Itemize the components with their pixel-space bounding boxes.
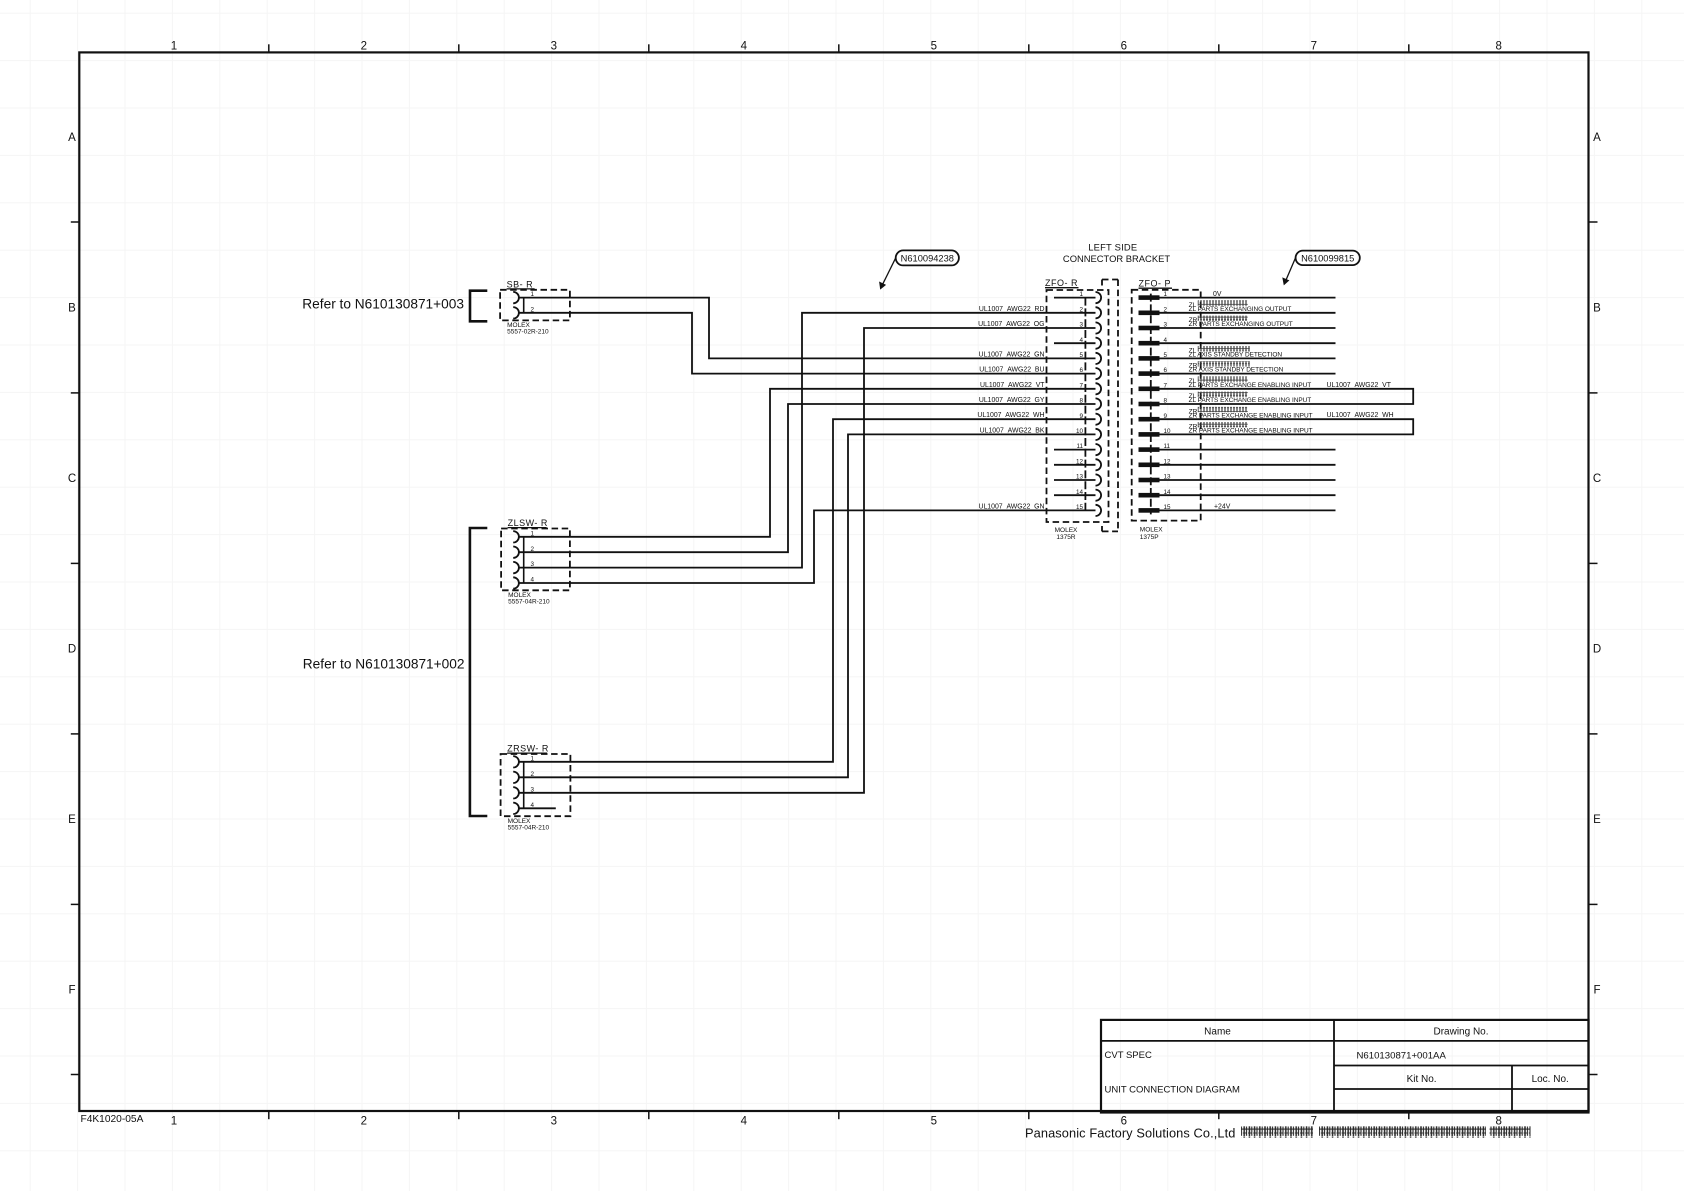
signal label pin 8: ZL PARTS EXCHANGE ENABLING INPUT xyxy=(1189,392,1312,405)
svg-text:ZRSW- R: ZRSW- R xyxy=(507,744,549,754)
svg-text:ZL PARTS EXCHANGE ENABLING INP: ZL PARTS EXCHANGE ENABLING INPUT xyxy=(1189,382,1312,389)
pin 8 xyxy=(1096,398,1102,409)
wire stub pin 1 xyxy=(1054,297,1096,299)
wire SB-R pin1 to ZFO-R pin5 xyxy=(519,298,1096,359)
svg-text:0V: 0V xyxy=(1213,291,1222,298)
svg-text:6: 6 xyxy=(1121,41,1127,53)
pin 12 xyxy=(1096,459,1102,470)
svg-text:9: 9 xyxy=(1079,413,1083,420)
svg-text:ZFO- R: ZFO- R xyxy=(1045,278,1078,288)
svg-text:5: 5 xyxy=(931,41,937,53)
svg-text:ZL AXIS STANDBY DETECTION: ZL AXIS STANDBY DETECTION xyxy=(1189,352,1283,359)
pin 15 xyxy=(1096,505,1102,516)
svg-text:E: E xyxy=(68,814,76,826)
svg-text:C: C xyxy=(1593,473,1601,485)
svg-text:C: C xyxy=(68,473,76,485)
svg-text:UL1007 AWG22 WH: UL1007 AWG22 WH xyxy=(1327,412,1394,419)
pin 3 xyxy=(513,787,519,798)
svg-text:4: 4 xyxy=(741,41,748,53)
wire stub pin 11 xyxy=(1054,449,1096,451)
svg-text:UL1007 AWG22 VT: UL1007 AWG22 VT xyxy=(1327,382,1392,389)
pin 3 xyxy=(1139,326,1160,331)
wire loop ZFO-P pin7 to pin8 xyxy=(1160,389,1414,404)
svg-text:5557-04R-210: 5557-04R-210 xyxy=(508,599,550,606)
signal label pin 7: ZL PARTS EXCHANGE ENABLING INPUT xyxy=(1189,376,1312,389)
wire labels UL1007 xyxy=(977,306,1045,511)
pin 1 xyxy=(1139,295,1160,300)
pin 4 xyxy=(513,803,519,814)
svg-text:MOLEX: MOLEX xyxy=(1055,527,1078,534)
svg-text:F: F xyxy=(68,985,75,997)
svg-text:ZR PARTS EXCHANGING OUTPUT: ZR PARTS EXCHANGING OUTPUT xyxy=(1189,321,1293,328)
wire stub pin 14 xyxy=(1054,494,1096,496)
svg-text:7: 7 xyxy=(1079,382,1083,389)
pin 3 xyxy=(513,562,519,573)
svg-text:N610094238: N610094238 xyxy=(901,253,954,263)
wire ZRSW-R pin3 to ZFO-R pin3 xyxy=(519,328,1096,793)
svg-text:SB- R: SB- R xyxy=(507,279,534,289)
pin 2 xyxy=(1139,311,1160,316)
connector ZLSW-R xyxy=(501,518,570,606)
svg-text:8: 8 xyxy=(1495,41,1501,53)
svg-text:UL1007 AWG22 BK: UL1007 AWG22 BK xyxy=(980,427,1045,434)
signal label pin 2: ZL PARTS EXCHANGING OUTPUT xyxy=(1189,300,1292,313)
svg-text:Drawing No.: Drawing No. xyxy=(1433,1027,1488,1038)
svg-text:1: 1 xyxy=(171,1116,177,1128)
svg-text:F4K1020-05A: F4K1020-05A xyxy=(81,1114,144,1125)
svg-text:2: 2 xyxy=(361,41,367,53)
svg-text:ZFO- P: ZFO- P xyxy=(1139,279,1172,289)
svg-text:N610099815: N610099815 xyxy=(1301,253,1354,263)
svg-text:5557-02R-210: 5557-02R-210 xyxy=(507,329,549,336)
svg-text:1375R: 1375R xyxy=(1056,534,1075,541)
pin 10 xyxy=(1096,429,1102,440)
wire ZFO-P pin 3 xyxy=(1160,327,1336,329)
callout N610099815 xyxy=(1282,251,1359,286)
svg-text:Refer to N610130871+003: Refer to N610130871+003 xyxy=(302,297,464,312)
wire ZRSW-R pin4 stub xyxy=(519,807,556,809)
svg-text:7: 7 xyxy=(1311,1116,1317,1128)
svg-text:1: 1 xyxy=(171,41,177,53)
bracket for ZLSW-R and ZRSW-R xyxy=(470,528,487,816)
svg-text:UL1007 AWG22 GN: UL1007 AWG22 GN xyxy=(979,503,1045,510)
svg-text:Kit No.: Kit No. xyxy=(1407,1074,1437,1085)
wire ZFO-P pin 15 xyxy=(1160,509,1336,511)
wire ZFO-P pin 1 xyxy=(1160,297,1336,299)
svg-text:2: 2 xyxy=(1079,306,1083,313)
pin 2 xyxy=(1096,307,1102,318)
connector ZFO-R xyxy=(1045,278,1109,541)
wire ZFO-P pin 12 xyxy=(1160,464,1336,466)
svg-text:LEFT SIDE: LEFT SIDE xyxy=(1088,242,1137,253)
pin 6 xyxy=(1139,371,1160,376)
svg-text:UNIT CONNECTION DIAGRAM: UNIT CONNECTION DIAGRAM xyxy=(1105,1085,1241,1096)
pin 7 xyxy=(1139,387,1160,392)
pin 13 xyxy=(1096,474,1102,485)
pin 9 xyxy=(1096,414,1102,425)
wire ZFO-P pin 4 xyxy=(1160,342,1336,344)
svg-text:UL1007 AWG22 OG: UL1007 AWG22 OG xyxy=(978,321,1044,328)
pin 6 xyxy=(1096,368,1102,379)
pin 14 xyxy=(1096,490,1102,501)
signal label pin 9: ZR PARTS EXCHANGE ENABLING INPUT xyxy=(1189,407,1313,420)
pin 2 xyxy=(513,547,519,558)
svg-text:3: 3 xyxy=(551,41,557,53)
pin 1 xyxy=(513,292,519,303)
svg-text:8: 8 xyxy=(1495,1116,1501,1128)
svg-text:Refer to N610130871+002: Refer to N610130871+002 xyxy=(303,657,465,672)
pin 4 xyxy=(1096,338,1102,349)
svg-text:ZR PARTS EXCHANGE ENABLING INP: ZR PARTS EXCHANGE ENABLING INPUT xyxy=(1189,428,1313,435)
pin 1 xyxy=(1096,292,1102,303)
svg-text:6: 6 xyxy=(1079,367,1083,374)
pin 3 xyxy=(1096,322,1102,333)
wire ZFO-P pin 2 xyxy=(1160,312,1336,314)
wire ZFO-P pin 14 xyxy=(1160,494,1336,496)
svg-text:UL1007 AWG22 BU: UL1007 AWG22 BU xyxy=(979,367,1044,374)
pin 5 xyxy=(1139,356,1160,361)
svg-text:5: 5 xyxy=(931,1116,937,1128)
svg-text:UL1007 AWG22 GY: UL1007 AWG22 GY xyxy=(979,397,1045,404)
pin 1 xyxy=(513,531,519,542)
wire ZLSW-R pin2 to ZFO-R pin8 xyxy=(519,404,1096,552)
svg-text:5: 5 xyxy=(1079,352,1083,359)
pin 1 xyxy=(513,756,519,767)
pin 11 xyxy=(1139,447,1160,452)
svg-text:UL1007 AWG22 GN: UL1007 AWG22 GN xyxy=(979,351,1045,358)
svg-text:2: 2 xyxy=(361,1116,367,1128)
svg-text:Loc. No.: Loc. No. xyxy=(1532,1074,1569,1085)
svg-text:D: D xyxy=(1593,644,1601,656)
bracket for SB-R xyxy=(470,291,487,322)
svg-text:MOLEX: MOLEX xyxy=(1140,526,1163,533)
pin 9 xyxy=(1139,417,1160,422)
svg-text:UL1007 AWG22 RD: UL1007 AWG22 RD xyxy=(979,306,1045,313)
svg-text:ZLSW- R: ZLSW- R xyxy=(508,518,548,528)
svg-text:A: A xyxy=(68,132,76,144)
svg-text:E: E xyxy=(1593,814,1601,826)
pin 5 xyxy=(1096,353,1102,364)
svg-text:CONNECTOR BRACKET: CONNECTOR BRACKET xyxy=(1063,253,1170,264)
svg-text:ZL PARTS EXCHANGE ENABLING INP: ZL PARTS EXCHANGE ENABLING INPUT xyxy=(1189,397,1312,404)
wire ZFO-P pin 6 xyxy=(1160,373,1336,375)
svg-text:UL1007 AWG22 VT: UL1007 AWG22 VT xyxy=(980,382,1045,389)
svg-text:ZL PARTS EXCHANGING OUTPUT: ZL PARTS EXCHANGING OUTPUT xyxy=(1189,306,1292,313)
wire SB-R pin2 to ZFO-R pin6 xyxy=(519,313,1096,374)
svg-text:UL1007 AWG22 WH: UL1007 AWG22 WH xyxy=(977,412,1044,419)
svg-text:10: 10 xyxy=(1076,428,1084,435)
svg-text:Panasonic Factory Solutions Co: Panasonic Factory Solutions Co.,Ltd xyxy=(1025,1126,1236,1141)
pin 10 xyxy=(1139,432,1160,437)
svg-text:CVT SPEC: CVT SPEC xyxy=(1105,1050,1152,1061)
signal label pin 6: ZR AXIS STANDBY DETECTION xyxy=(1189,361,1284,374)
pin 2 xyxy=(513,307,519,318)
wire stub pin 4 xyxy=(1054,342,1096,344)
pin 2 xyxy=(513,772,519,783)
svg-text:15: 15 xyxy=(1076,504,1084,511)
title block xyxy=(1101,1020,1589,1113)
pin 13 xyxy=(1139,478,1160,483)
svg-text:ZR PARTS EXCHANGE ENABLING INP: ZR PARTS EXCHANGE ENABLING INPUT xyxy=(1189,412,1313,419)
wire ZFO-P pin 11 xyxy=(1160,449,1336,451)
callout N610094238 xyxy=(879,250,959,289)
svg-text:B: B xyxy=(1593,303,1601,315)
svg-text:+24V: +24V xyxy=(1214,504,1231,511)
pin 8 xyxy=(1139,402,1160,407)
wire ZFO-P pin 5 xyxy=(1160,357,1336,359)
wire ZLSW-R pin4 to ZFO-R pin15 xyxy=(519,510,1096,583)
signal label pin 10: ZR PARTS EXCHANGE ENABLING INPUT xyxy=(1189,422,1313,435)
connector ZFO-P xyxy=(1132,279,1201,541)
label LEFT SIDE CONNECTOR BRACKET xyxy=(1063,242,1170,264)
svg-text:5557-04R-210: 5557-04R-210 xyxy=(508,825,550,832)
svg-text:3: 3 xyxy=(551,1116,557,1128)
left side connector bracket outline xyxy=(1102,280,1118,532)
pin 4 xyxy=(513,577,519,588)
svg-text:B: B xyxy=(68,303,76,315)
svg-text:8: 8 xyxy=(1079,398,1083,405)
svg-text:1375P: 1375P xyxy=(1140,534,1159,541)
pin 4 xyxy=(1139,341,1160,346)
svg-text:N610130871+001AA: N610130871+001AA xyxy=(1357,1051,1447,1062)
pin 11 xyxy=(1096,444,1102,455)
wire ZLSW-R pin1 to ZFO-R pin7 xyxy=(519,389,1096,537)
wire ZFO-P pin 13 xyxy=(1160,479,1336,481)
svg-text:F: F xyxy=(1593,985,1600,997)
wire loop ZFO-P pin9 to pin10 xyxy=(1160,419,1414,434)
signal label pin 5: ZL AXIS STANDBY DETECTION xyxy=(1189,346,1283,359)
svg-text:7: 7 xyxy=(1311,41,1317,53)
svg-text:D: D xyxy=(68,644,76,656)
company name xyxy=(1025,1126,1531,1141)
wire ZRSW-R pin1 to ZFO-R pin9 xyxy=(519,419,1096,762)
svg-text:Name: Name xyxy=(1204,1027,1231,1038)
svg-text:A: A xyxy=(1593,132,1601,144)
connector SB-R xyxy=(500,279,570,335)
svg-text:ZR AXIS STANDBY DETECTION: ZR AXIS STANDBY DETECTION xyxy=(1189,367,1284,374)
wire stub pin 13 xyxy=(1054,479,1096,481)
wire stub pin 12 xyxy=(1054,464,1096,466)
wire ZLSW-R pin3 to ZFO-R pin2 xyxy=(519,313,1096,568)
connector ZRSW-R xyxy=(501,744,571,832)
pin 15 xyxy=(1139,508,1160,513)
wire ZRSW-R pin2 to ZFO-R pin10 xyxy=(519,434,1096,777)
signal label pin 3: ZR PARTS EXCHANGING OUTPUT xyxy=(1189,316,1293,329)
pin 12 xyxy=(1139,463,1160,468)
svg-text:3: 3 xyxy=(1079,322,1083,329)
pin 7 xyxy=(1096,383,1102,394)
pin 14 xyxy=(1139,493,1160,498)
svg-text:4: 4 xyxy=(741,1116,748,1128)
